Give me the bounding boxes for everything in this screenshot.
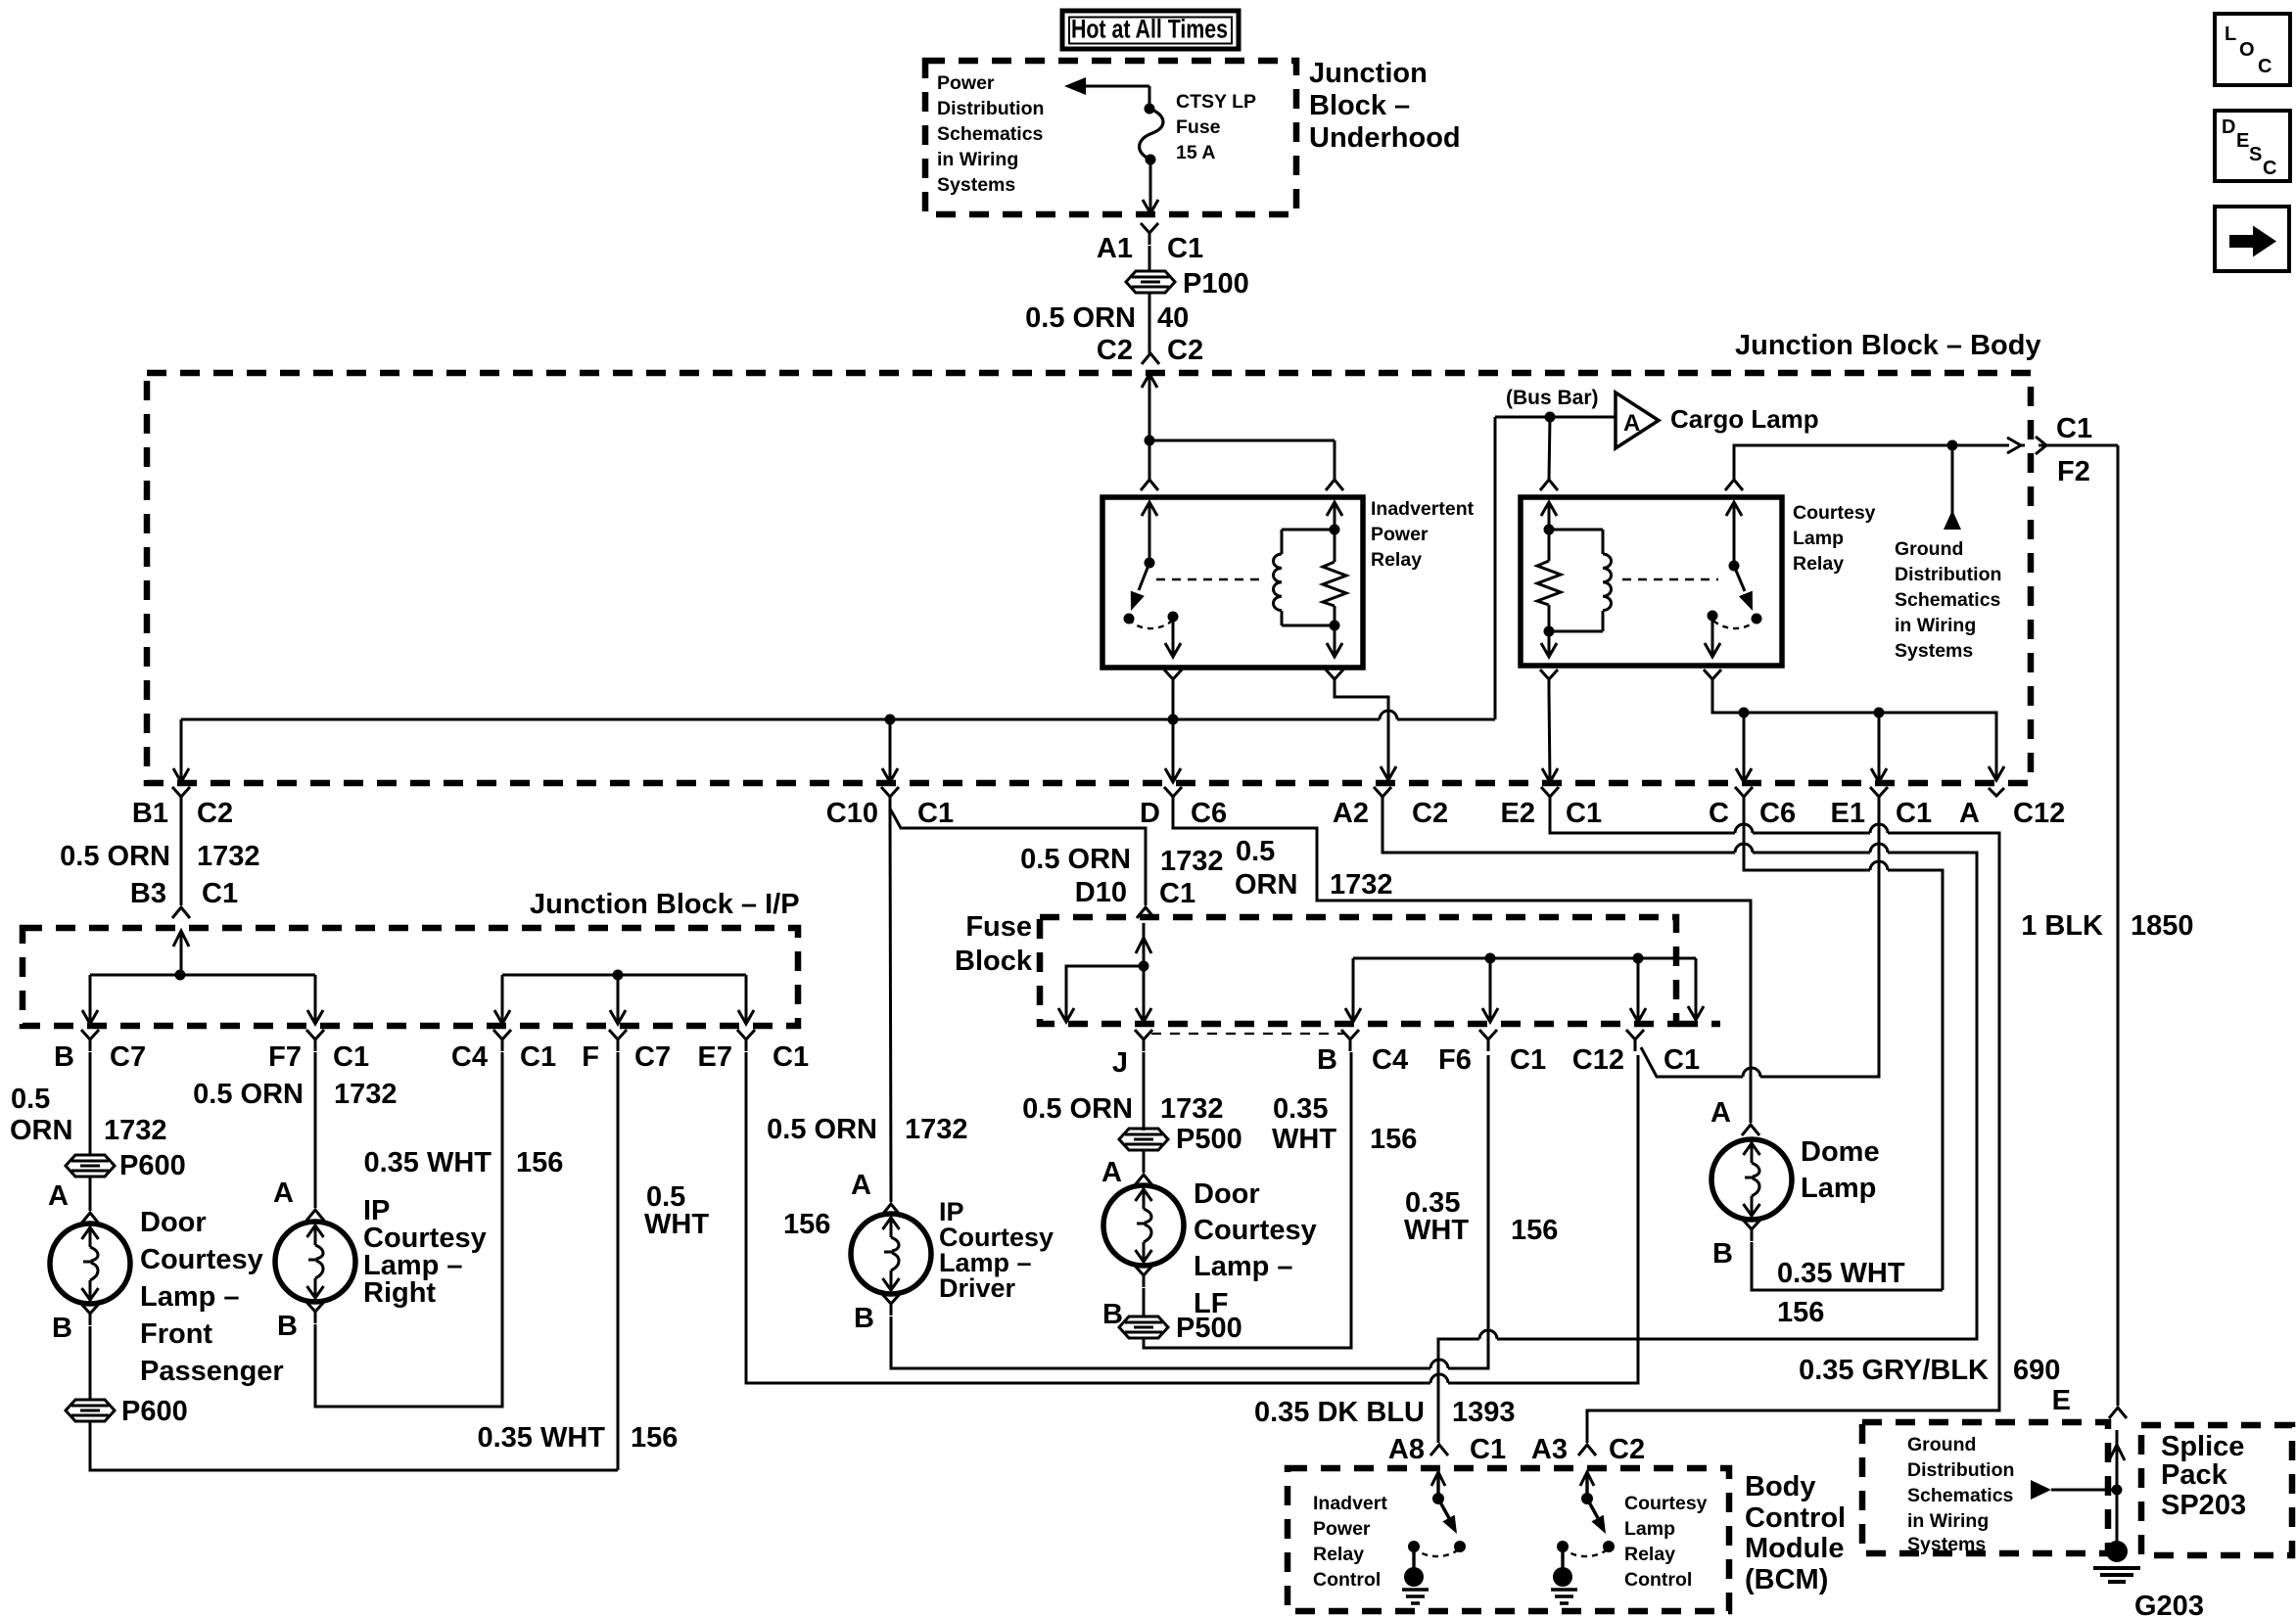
svg-text:0.5: 0.5 — [11, 1084, 50, 1115]
svg-text:A1: A1 — [1097, 233, 1133, 264]
wire courtesy switch feed from F2 — [1734, 445, 2009, 480]
wire bus bar horizontal — [1495, 416, 1616, 419]
wire LF return to B-C4 — [1144, 1052, 1351, 1348]
svg-text:C1: C1 — [1896, 798, 1932, 829]
courtesy resistor — [1548, 502, 1551, 530]
svg-text:156: 156 — [1777, 1297, 1824, 1328]
wire main feed to inadvertent switch — [1148, 440, 1151, 480]
ground G203 symbol — [2093, 1566, 2140, 1570]
svg-text:Junction: Junction — [1309, 58, 1428, 89]
svg-text:Right: Right — [363, 1277, 436, 1309]
wire P100 to C2 — [1148, 293, 1151, 353]
connector courtesy switch output — [1704, 670, 1721, 691]
svg-text:P500: P500 — [1176, 1313, 1242, 1344]
svg-text:C12: C12 — [2013, 798, 2065, 829]
wire D10 into fuse block — [1136, 938, 1151, 953]
svg-text:C1: C1 — [2056, 413, 2092, 444]
courtesy switch contact dot common — [1708, 611, 1718, 622]
svg-text:C1: C1 — [773, 1041, 809, 1073]
wire fuse feed elbow — [1148, 86, 1151, 109]
BCM courtesy control ground pole — [1557, 1541, 1569, 1552]
svg-text:(Bus Bar): (Bus Bar) — [1506, 387, 1599, 409]
wire lamp B to P500 lower — [1143, 1288, 1146, 1317]
wire IP drop F-C7 — [617, 975, 620, 1022]
svg-text:Schematics: Schematics — [937, 123, 1044, 145]
wire IP drop E7-C1 — [745, 975, 748, 1022]
splice P500 lower — [1119, 1317, 1168, 1338]
connector F-C7 — [609, 1030, 627, 1051]
connector B-C4 — [1341, 1030, 1359, 1051]
inadvertent switch contact dot open — [1124, 614, 1135, 624]
svg-text:Dome: Dome — [1801, 1136, 1880, 1168]
connector inadvertent coil output — [1326, 670, 1343, 691]
splice P600 upper — [66, 1155, 115, 1177]
Fuse Block dashed box — [1040, 917, 1676, 1024]
BCM courtesy control throw arc — [1563, 1547, 1609, 1556]
svg-text:C2: C2 — [1609, 1434, 1645, 1465]
wire lamp B to P600 lower — [89, 1326, 92, 1400]
svg-text:Front: Front — [140, 1318, 212, 1350]
node E1-branch dot — [1874, 708, 1885, 718]
fuse CTSY LP node dot bottom — [1146, 155, 1156, 165]
svg-text:Courtesy: Courtesy — [140, 1244, 263, 1275]
splice P600 lower — [66, 1400, 115, 1421]
svg-text:1 BLK: 1 BLK — [2021, 910, 2103, 942]
svg-text:Schematics: Schematics — [1895, 589, 2001, 611]
next-page arrow box — [2215, 207, 2289, 271]
svg-text:B: B — [1712, 1238, 1733, 1270]
svg-text:B: B — [52, 1313, 72, 1344]
node bus-C10 dot — [885, 715, 896, 725]
svg-text:0.5 ORN: 0.5 ORN — [193, 1079, 304, 1110]
svg-text:Inadvertent: Inadvertent — [1371, 498, 1475, 520]
svg-text:1732: 1732 — [1330, 869, 1393, 901]
svg-text:Lamp: Lamp — [1793, 528, 1844, 549]
BCM courtesy control switch — [1580, 1472, 1594, 1486]
node C-branch dot — [1739, 708, 1750, 718]
wire inadvertent coil to A2 — [1335, 691, 1388, 780]
svg-text:Control: Control — [1313, 1569, 1381, 1591]
svg-text:S: S — [2249, 144, 2262, 165]
wire fuse drop F6-C1 — [1489, 958, 1492, 1020]
connector C1-F2 chevron — [2036, 437, 2046, 454]
wire fuse drop C12-C1 — [1637, 958, 1640, 1020]
connector A3-C2 — [1578, 1445, 1596, 1455]
svg-text:A: A — [273, 1178, 294, 1209]
node IP return dot — [613, 970, 624, 981]
connector A8-C1 — [1430, 1445, 1448, 1455]
lamp IP Courtesy Right — [275, 1222, 355, 1302]
wire B1 drop — [180, 719, 183, 782]
svg-text:B: B — [1317, 1044, 1337, 1076]
courtesy switch pole wire — [1733, 502, 1736, 566]
svg-text:0.35: 0.35 — [1273, 1093, 1328, 1125]
Junction Block - Underhood dashed box — [925, 61, 1296, 214]
svg-text:0.5 ORN: 0.5 ORN — [1025, 302, 1136, 334]
wire C10 drop — [889, 719, 892, 782]
svg-text:B: B — [854, 1303, 874, 1334]
BCM inadvert control ground pole — [1408, 1541, 1420, 1552]
connector J — [1135, 1030, 1152, 1051]
svg-text:0.35 WHT: 0.35 WHT — [477, 1422, 605, 1454]
wire C2 into body box — [1142, 374, 1157, 388]
wire B1 to B3 — [180, 808, 183, 905]
wire E1 to C12 link — [1760, 808, 1879, 1077]
svg-text:0.35 DK BLU: 0.35 DK BLU — [1254, 1397, 1425, 1428]
fuse CTSY LP node dot top — [1145, 104, 1155, 115]
splice P500 upper — [1119, 1129, 1168, 1150]
svg-text:15 A: 15 A — [1176, 142, 1215, 163]
wire D drop to connector — [1172, 719, 1175, 782]
svg-text:ORN: ORN — [10, 1115, 72, 1146]
svg-text:0.5: 0.5 — [1236, 836, 1275, 867]
svg-text:A: A — [48, 1180, 69, 1212]
connector C10-C1 — [881, 787, 899, 808]
wire F2 to splice pack E — [2117, 445, 2120, 1406]
inadvertent switch throw arc — [1129, 619, 1172, 628]
connector inadvertent switch output — [1164, 670, 1182, 691]
svg-text:156: 156 — [783, 1209, 830, 1240]
wire E7-C1 return — [746, 1052, 1430, 1383]
inadvertent switch contact dot common — [1168, 612, 1179, 623]
svg-text:Junction Block – Body: Junction Block – Body — [1735, 330, 2041, 361]
svg-text:Splice: Splice — [2161, 1431, 2244, 1462]
ground G203 ball — [2106, 1541, 2128, 1562]
wire F7-C1 down — [314, 1052, 317, 1208]
svg-text:1732: 1732 — [905, 1114, 968, 1145]
inadvertent coil top wire — [1282, 529, 1335, 531]
svg-text:Underhood: Underhood — [1309, 122, 1461, 154]
svg-text:1850: 1850 — [2131, 910, 2194, 942]
svg-text:in Wiring: in Wiring — [937, 149, 1018, 170]
svg-text:J: J — [1112, 1047, 1128, 1079]
connector C4-C1 — [493, 1030, 511, 1051]
DESC reference box — [2215, 111, 2290, 181]
svg-text:F6: F6 — [1438, 1044, 1472, 1076]
fuse block connector link dashed — [1151, 1033, 1343, 1035]
courtesy coil top wire — [1549, 529, 1603, 531]
svg-text:Block: Block — [955, 946, 1033, 977]
Junction Block - I/P dashed box — [23, 928, 798, 1026]
connector lamp A (door fp) — [81, 1213, 99, 1224]
svg-text:A: A — [1101, 1157, 1122, 1188]
svg-text:Relay: Relay — [1624, 1544, 1675, 1565]
inadvertent resistor — [1334, 502, 1336, 530]
svg-text:Module: Module — [1745, 1533, 1845, 1564]
svg-text:Lamp: Lamp — [1624, 1518, 1675, 1540]
wire to power distribution with arrow — [1077, 85, 1149, 88]
courtesy relay mechanical link — [1622, 578, 1718, 581]
svg-text:E: E — [2236, 130, 2249, 152]
svg-text:B: B — [54, 1041, 74, 1073]
wire F2 to right edge — [2038, 444, 2118, 447]
connector D-C6 — [1164, 787, 1182, 808]
node main feed dot — [1145, 436, 1155, 446]
wire courtesy switch to outputs — [1712, 691, 1996, 780]
svg-text:B: B — [277, 1311, 298, 1342]
svg-text:40: 40 — [1157, 302, 1189, 334]
svg-text:C6: C6 — [1191, 798, 1227, 829]
connector dome A — [1742, 1125, 1759, 1135]
connector lamp A (ip right) — [306, 1210, 324, 1221]
svg-text:P500: P500 — [1176, 1124, 1242, 1155]
wire IP drop B-C7 — [89, 975, 92, 1022]
svg-text:(BCM): (BCM) — [1745, 1564, 1828, 1595]
wire D-C6 to dome lamp — [1173, 808, 1751, 1123]
svg-text:C1: C1 — [520, 1041, 556, 1073]
svg-text:Courtesy: Courtesy — [1624, 1493, 1708, 1514]
svg-text:Power: Power — [1371, 524, 1429, 545]
wire bus to courtesy coil — [1549, 417, 1550, 480]
svg-text:Lamp: Lamp — [1801, 1173, 1876, 1204]
Splice Pack dashed box — [2141, 1425, 2292, 1555]
connector A1-C1 — [1141, 223, 1158, 245]
svg-text:Body: Body — [1745, 1471, 1816, 1502]
wire ip-right return loop — [315, 1052, 502, 1407]
node splice dot — [2112, 1485, 2123, 1496]
svg-text:C12: C12 — [1572, 1044, 1624, 1076]
wire A2 to BCM A8 — [1382, 808, 1735, 853]
svg-text:Lamp –: Lamp – — [140, 1281, 240, 1313]
svg-text:Fuse: Fuse — [1176, 116, 1221, 138]
svg-text:C7: C7 — [634, 1041, 671, 1073]
connector A2-C2 — [1374, 787, 1391, 808]
courtesy switch contact dot open — [1752, 614, 1762, 624]
svg-text:C1: C1 — [1566, 798, 1602, 829]
svg-text:0.5 ORN: 0.5 ORN — [60, 841, 170, 872]
svg-text:WHT: WHT — [1404, 1215, 1469, 1246]
svg-text:Control: Control — [1745, 1502, 1846, 1534]
wire power bus horizontal — [181, 718, 1380, 721]
svg-text:B3: B3 — [130, 878, 166, 909]
svg-text:C4: C4 — [1372, 1044, 1408, 1076]
wire fuse drop B-C4 — [1352, 958, 1355, 1020]
wire C to dome return — [1744, 808, 1870, 870]
svg-text:Power: Power — [937, 72, 995, 94]
connector D10-C1 — [1137, 907, 1154, 918]
svg-text:P600: P600 — [119, 1150, 186, 1181]
svg-text:C2: C2 — [1097, 335, 1133, 366]
connector C-C6 — [1735, 787, 1753, 808]
wire fuse J drop — [1143, 966, 1146, 1020]
svg-text:C: C — [1709, 798, 1729, 829]
svg-text:C1: C1 — [1159, 878, 1195, 909]
wire E2 to BCM A3 — [1550, 808, 1735, 833]
wire P600 to ground bus — [90, 1421, 618, 1470]
svg-text:A2: A2 — [1333, 798, 1369, 829]
svg-text:1732: 1732 — [197, 841, 260, 872]
svg-text:D: D — [2222, 116, 2235, 138]
svg-text:Door: Door — [1194, 1178, 1260, 1210]
svg-text:0.5 ORN: 0.5 ORN — [767, 1114, 877, 1145]
node fuse rail dot F6 — [1485, 953, 1496, 964]
wire fuse drop right stub — [1695, 958, 1698, 1018]
svg-text:Systems: Systems — [1907, 1534, 1986, 1555]
svg-text:C2: C2 — [197, 798, 233, 829]
svg-text:Control: Control — [1624, 1569, 1692, 1591]
inadvertent switch blade — [1139, 563, 1149, 590]
connector F7-C1 — [306, 1030, 324, 1051]
svg-text:C2: C2 — [1167, 335, 1203, 366]
svg-text:690: 690 — [2013, 1355, 2060, 1386]
svg-text:1732: 1732 — [334, 1079, 398, 1110]
BCM inadvert control throw arc — [1414, 1547, 1460, 1556]
inadvertent coil bottom wire — [1282, 624, 1335, 627]
courtesy switch pivot dot — [1729, 561, 1740, 572]
connector F6-C1 — [1479, 1030, 1497, 1051]
svg-text:C: C — [2258, 56, 2272, 77]
inadvertent switch pivot dot — [1145, 558, 1155, 569]
svg-text:Courtesy: Courtesy — [1793, 502, 1876, 524]
Junction Block - Body dashed box — [147, 373, 2031, 783]
svg-text:0.5 ORN: 0.5 ORN — [1022, 1093, 1133, 1125]
svg-text:Driver: Driver — [939, 1273, 1016, 1303]
svg-text:C6: C6 — [1759, 798, 1796, 829]
cargo lamp triangle — [1616, 393, 1659, 448]
svg-text:1732: 1732 — [104, 1115, 167, 1146]
svg-text:F2: F2 — [2057, 456, 2090, 487]
svg-text:C7: C7 — [110, 1041, 146, 1073]
connector E splice — [2109, 1408, 2127, 1418]
wire fuse output rail — [1353, 957, 1696, 960]
connector B-C7 — [81, 1030, 99, 1051]
svg-text:A: A — [1710, 1097, 1731, 1129]
Ground Distribution dashed box (bottom) — [1862, 1422, 2108, 1553]
svg-text:156: 156 — [1511, 1215, 1558, 1246]
svg-text:0.35 WHT: 0.35 WHT — [363, 1147, 492, 1178]
wire fuse internal branch left — [1066, 966, 1144, 1020]
svg-text:A3: A3 — [1531, 1434, 1568, 1465]
svg-text:0.35 WHT: 0.35 WHT — [1777, 1258, 1905, 1289]
node ground-distribution dot — [1947, 440, 1958, 451]
wire IP feed distribution — [90, 974, 315, 977]
ground distribution pointer — [2031, 1480, 2051, 1500]
svg-text:Ground: Ground — [1907, 1434, 1976, 1455]
svg-text:Junction Block – I/P: Junction Block – I/P — [530, 889, 800, 920]
svg-text:156: 156 — [516, 1147, 563, 1178]
svg-text:ORN: ORN — [1235, 869, 1297, 901]
svg-text:0.35 GRY/BLK: 0.35 GRY/BLK — [1799, 1355, 1989, 1386]
svg-text:SP203: SP203 — [2161, 1490, 2246, 1521]
svg-text:C1: C1 — [1470, 1434, 1506, 1465]
wire bus riser to bus bar — [1494, 417, 1497, 719]
svg-text:Distribution: Distribution — [1907, 1459, 2014, 1481]
node fuse rail dot C12 — [1633, 953, 1644, 964]
connector E2-C1 — [1541, 787, 1559, 808]
connector A-C12 — [1989, 788, 2004, 796]
connector E1-C1 — [1870, 787, 1888, 808]
svg-text:B1: B1 — [132, 798, 168, 829]
courtesy resistor output wire — [1548, 631, 1551, 655]
svg-text:A: A — [1959, 798, 1980, 829]
connector B3-C1 — [172, 907, 190, 918]
inadvertent switch output wire — [1172, 617, 1175, 655]
svg-text:Fuse: Fuse — [965, 911, 1032, 943]
svg-text:WHT: WHT — [1272, 1124, 1336, 1155]
svg-text:L: L — [2225, 23, 2236, 45]
svg-text:C1: C1 — [1167, 233, 1203, 264]
svg-text:Relay: Relay — [1371, 549, 1422, 571]
svg-text:C1: C1 — [1510, 1044, 1546, 1076]
node IP feed dot — [175, 970, 186, 981]
svg-text:Relay: Relay — [1793, 553, 1844, 575]
svg-text:D10: D10 — [1075, 877, 1127, 908]
wire B3 into IP box — [173, 931, 189, 947]
connector C2-C2 — [1142, 353, 1159, 364]
wire branch to inadvertent coil — [1149, 439, 1335, 442]
svg-text:Inadvert: Inadvert — [1313, 1493, 1387, 1514]
wire C10 to D10 jog — [890, 808, 1146, 905]
connector lamp A (lf) — [1135, 1175, 1152, 1185]
svg-text:C: C — [2263, 158, 2276, 179]
wire C drop — [1743, 713, 1746, 782]
svg-text:E7: E7 — [698, 1041, 732, 1073]
lamp Door Courtesy LF — [1103, 1185, 1184, 1266]
relay box Courtesy Lamp Relay — [1521, 497, 1782, 666]
connector lamp B (lf) — [1135, 1266, 1152, 1287]
wire C10 to ip driver lamp — [890, 808, 891, 1202]
connector courtesy resistor output — [1540, 670, 1558, 691]
connector lamp B (ip right) — [306, 1302, 324, 1323]
svg-text:C2: C2 — [1412, 798, 1448, 829]
svg-text:Hot at All Times: Hot at All Times — [1071, 15, 1228, 44]
svg-text:in Wiring: in Wiring — [1895, 615, 1976, 636]
svg-text:Courtesy: Courtesy — [1194, 1215, 1317, 1246]
svg-text:156: 156 — [631, 1422, 678, 1454]
svg-text:Systems: Systems — [937, 174, 1015, 196]
inadvertent coil output wire — [1334, 625, 1336, 655]
lamp Door Courtesy Front Passenger — [50, 1224, 130, 1304]
wire B-C7 down — [89, 1052, 92, 1155]
courtesy relay coil — [1602, 530, 1605, 554]
svg-text:E: E — [2052, 1385, 2071, 1416]
wire dome B return — [1752, 1242, 1943, 1290]
svg-text:Door: Door — [140, 1207, 207, 1238]
LOC reference box — [2215, 14, 2290, 85]
lamp Dome Lamp — [1711, 1139, 1792, 1220]
splice P100 — [1126, 271, 1175, 293]
connector lamp B (door fp) — [81, 1304, 99, 1325]
svg-text:Ground: Ground — [1895, 538, 1963, 560]
BCM inadvert control switch — [1431, 1472, 1445, 1486]
lamp IP Courtesy Driver — [851, 1214, 931, 1294]
courtesy coil bottom wire — [1549, 630, 1603, 633]
svg-text:0.5 ORN: 0.5 ORN — [1020, 844, 1131, 875]
svg-text:E1: E1 — [1831, 798, 1865, 829]
svg-text:P600: P600 — [121, 1396, 188, 1427]
svg-text:in Wiring: in Wiring — [1907, 1510, 1989, 1532]
connector C12-C1 — [1626, 1030, 1644, 1051]
wire IP return distribution — [502, 974, 746, 977]
svg-text:C1: C1 — [202, 878, 238, 909]
wire ip driver return — [891, 1317, 1430, 1368]
wire fuse to box edge — [1149, 160, 1152, 212]
courtesy switch throw arc — [1713, 619, 1757, 628]
svg-text:1732: 1732 — [1160, 1093, 1224, 1125]
Hot at All Times box — [1062, 11, 1239, 49]
svg-text:Power: Power — [1313, 1518, 1371, 1540]
wire A1 to P100 — [1148, 246, 1151, 271]
inadvertent relay coil — [1281, 530, 1284, 554]
svg-text:D: D — [1140, 798, 1160, 829]
svg-text:Cargo Lamp: Cargo Lamp — [1670, 404, 1819, 434]
svg-text:A: A — [851, 1170, 871, 1201]
svg-text:Distribution: Distribution — [937, 98, 1044, 119]
wire IP drop F7-C1 — [314, 975, 317, 1022]
wire P500 to lamp A — [1143, 1150, 1146, 1173]
connector E7-C1 — [737, 1030, 755, 1051]
connector lamp B (ip driver) — [882, 1294, 900, 1316]
